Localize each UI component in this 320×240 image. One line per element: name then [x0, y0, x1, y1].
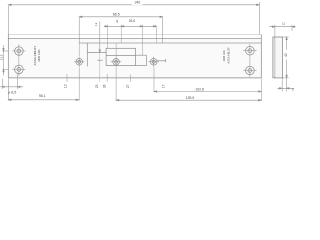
svg-text:12: 12 — [94, 22, 98, 26]
ext below plate d2 — [129, 75, 131, 83]
svg-text:86.5: 86.5 — [113, 13, 120, 17]
dim 240 extension right — [258, 2, 260, 35]
ext bottom — [282, 77, 288, 79]
side view plate — [273, 37, 283, 78]
dim 86.5 extension right — [162, 17, 164, 43]
small vertical right of box — [145, 55, 147, 65]
ext from tick a to box corner — [107, 28, 109, 48]
svg-text:102.8: 102.8 — [195, 88, 204, 92]
svg-text:⌀ 6,5: ⌀ 6,5 — [8, 91, 16, 95]
recess mid line right — [136, 54, 147, 56]
small cross tick — [97, 59, 103, 61]
svg-text:ASSA ABLOY: ASSA ABLOY — [33, 45, 37, 65]
side view thickness dim — [277, 79, 294, 92]
latch box bottom extension — [136, 65, 147, 67]
svg-text:25.8: 25.8 — [129, 19, 135, 23]
plate right edge — [260, 35, 262, 78]
dimension 86.5 line — [79, 16, 163, 56]
ext below plate b (hole A centre) — [78, 68, 80, 101]
small hole middle-right — [148, 57, 159, 68]
svg-text:27: 27 — [126, 84, 130, 88]
ext below plate a — [66, 74, 68, 82]
ext from tick b to hole B — [120, 28, 122, 43]
svg-text:240: 240 — [135, 1, 141, 5]
tick d — [155, 25, 157, 28]
svg-text:139.9: 139.9 — [186, 96, 195, 100]
side view height dim 40 — [282, 37, 288, 78]
ext below plate right edge — [260, 79, 262, 101]
ext below plate f (hole C centre) — [153, 68, 155, 92]
svg-text:40: 40 — [284, 53, 288, 57]
dimension 240 line — [8, 2, 259, 35]
recess mid line left — [87, 51, 106, 53]
plate left edge — [7, 35, 9, 78]
bottom dim 98.1 — [8, 79, 79, 101]
bottom dim 139.9 — [116, 99, 261, 101]
latch box inner line — [106, 54, 135, 56]
side view inner face line — [274, 37, 276, 78]
dimension 8 / 25.8 line — [104, 25, 157, 57]
mounting hole bottom-right — [243, 66, 256, 75]
tick c — [142, 25, 144, 28]
ext below plate d — [106, 74, 108, 82]
bottom dim 102.8 — [154, 91, 261, 93]
dim 240 extension left — [7, 6, 9, 35]
svg-text:8: 8 — [116, 20, 118, 24]
bottom small hole dim — [0, 75, 23, 90]
tick b — [120, 25, 122, 28]
vertical label text left — [33, 45, 41, 65]
plate top strong line — [8, 38, 261, 40]
svg-text:ASSA ABLOY: ASSA ABLOY — [226, 47, 230, 64]
tick a — [107, 25, 109, 28]
plate face subtle fill — [8, 39, 261, 78]
side view top dim — [269, 25, 296, 37]
latch box — [106, 48, 135, 65]
svg-text:17: 17 — [162, 84, 166, 88]
bottom extension lines — [67, 68, 261, 101]
bottom rotated small labels — [63, 84, 165, 88]
dim 240 label — [132, 0, 143, 5]
left hole spacing dim — [2, 45, 8, 76]
svg-text:23: 23 — [95, 84, 99, 88]
ext top — [282, 36, 288, 38]
small hole middle-left — [74, 57, 85, 68]
svg-text:3605 1301: 3605 1301 — [222, 49, 226, 61]
svg-text:11: 11 — [282, 22, 285, 26]
vertical dim 16.5 — [99, 22, 101, 53]
ext from tick c down — [142, 28, 144, 55]
side view subtle fill — [273, 37, 283, 78]
mounting hole bottom-left — [12, 65, 25, 74]
svg-text:3: 3 — [292, 88, 294, 92]
svg-text:3605 1301: 3605 1301 — [37, 49, 41, 62]
dim 86.5 extension left — [78, 17, 80, 43]
ext from tick d down — [156, 28, 158, 43]
stub line from middle-right hole — [157, 60, 165, 62]
svg-text:36: 36 — [103, 84, 107, 88]
mounting hole top-right — [243, 44, 256, 77]
mounting hole top-left — [12, 44, 25, 76]
svg-text:98.1: 98.1 — [39, 94, 46, 98]
ext below plate e (hole B centre) — [115, 68, 117, 101]
small cross vertical — [99, 52, 101, 81]
recess top line — [79, 42, 261, 44]
plate bottom edge — [8, 77, 261, 79]
plate top faint line — [8, 34, 261, 36]
svg-text:12: 12 — [63, 84, 67, 88]
small hole middle-center — [111, 57, 122, 68]
stub end tick — [165, 59, 167, 62]
recess step vertical — [86, 43, 88, 67]
vertical label text right — [222, 47, 230, 64]
dim 86.5 label — [111, 12, 122, 16]
svg-text:13.5: 13.5 — [0, 54, 3, 60]
